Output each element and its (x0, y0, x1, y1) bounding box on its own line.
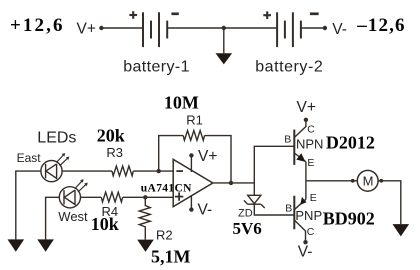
svg-text:ZD: ZD (238, 208, 253, 220)
svg-text:NPN: NPN (296, 137, 323, 152)
wire East LED to ground (16, 171, 41, 239)
ground (East) (8, 239, 25, 251)
wire battery-2 to V- (301, 27, 325, 29)
wire op-amp output (213, 182, 255, 184)
motor M (351, 179, 355, 183)
wire West LED to ground (46, 197, 60, 239)
svg-text:5V6: 5V6 (233, 219, 262, 238)
svg-text:V+: V+ (77, 21, 96, 38)
svg-text:B: B (284, 133, 291, 145)
svg-text:R1: R1 (186, 113, 203, 128)
svg-text:B: B (285, 202, 292, 214)
wire output node up to NPN base (254, 146, 294, 195)
svg-text:V-: V- (298, 243, 313, 260)
wire motor to ground (378, 181, 401, 224)
transistor Q2 PNP (293, 196, 295, 230)
LED West (59, 180, 87, 208)
svg-text:V-: V- (198, 202, 213, 219)
svg-text:E: E (310, 192, 317, 204)
wire battery-1 to battery-2 (168, 27, 277, 29)
svg-text:battery-2: battery-2 (255, 58, 323, 75)
ground (top middle) (223, 28, 225, 53)
junction (R2 node) (143, 195, 147, 199)
svg-text:D2012: D2012 (326, 132, 375, 152)
wire feedback right (205, 136, 232, 183)
wire V+ to battery-1 (99, 26, 103, 30)
LED East (41, 154, 69, 182)
battery B1 (143, 12, 167, 47)
node V- (PNP collector) (303, 240, 307, 244)
svg-text:BD902: BD902 (323, 209, 375, 229)
wire R4 to op-amp non-inverting input (123, 196, 174, 198)
svg-text:C: C (307, 226, 315, 238)
svg-text:V+: V+ (297, 99, 316, 116)
svg-text:East: East (17, 151, 42, 165)
op-amp V- pin (189, 207, 193, 211)
svg-text:10M: 10M (164, 93, 199, 113)
svg-text:battery-1: battery-1 (123, 58, 190, 75)
resistor R2 (139, 197, 150, 239)
svg-text:5,1M: 5,1M (151, 246, 191, 266)
junction (output node) (229, 181, 233, 185)
wire NPN emitter to PNP emitter (305, 162, 307, 199)
resistor R4 (101, 192, 122, 202)
wire East LED to R3 (62, 170, 112, 172)
wire emitters to motor (306, 180, 358, 182)
battery B2 (277, 12, 301, 47)
resistor R3 (112, 166, 133, 176)
junction (feedback node) (157, 169, 161, 173)
transistor Q1 NPN (293, 130, 295, 165)
op-amp V+ pin (189, 153, 193, 157)
svg-text:20k: 20k (97, 126, 125, 146)
svg-text:V+: V+ (198, 148, 217, 165)
svg-text:LEDs: LEDs (37, 130, 76, 147)
svg-text:E: E (307, 157, 314, 169)
wire zener to PNP base (254, 204, 294, 215)
wire feedback left (159, 136, 184, 172)
svg-text:R3: R3 (106, 145, 123, 160)
svg-text:+12,6: +12,6 (10, 15, 65, 36)
wire R3 to op-amp inverting input (133, 170, 173, 172)
junction (222, 26, 226, 30)
svg-text:PNP: PNP (295, 208, 322, 223)
svg-text:–12,6: –12,6 (356, 15, 405, 36)
wire West LED to R4 (81, 196, 102, 198)
ground (R2) (137, 240, 154, 252)
op-amp U1 (173, 159, 213, 206)
svg-text:V-: V- (332, 21, 347, 38)
zener diode ZD (244, 195, 265, 208)
svg-text:M: M (363, 174, 374, 189)
ground (motor) (393, 224, 410, 236)
svg-text:C: C (307, 124, 315, 136)
svg-text:West: West (58, 209, 88, 224)
svg-text:10k: 10k (91, 214, 119, 234)
svg-text:R2: R2 (156, 227, 173, 242)
resistor R1 (183, 131, 204, 141)
svg-text:uA741CN: uA741CN (141, 183, 192, 195)
ground (West) (37, 239, 54, 251)
